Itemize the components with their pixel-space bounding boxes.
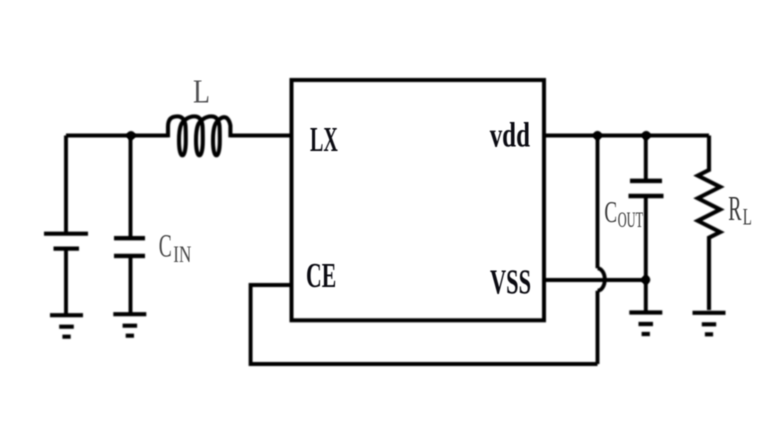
svg-text:L: L	[193, 74, 210, 111]
svg-text:C: C	[159, 229, 172, 265]
svg-text:LX: LX	[310, 120, 338, 159]
svg-text:VSS: VSS	[490, 263, 531, 302]
svg-text:OUT: OUT	[618, 207, 644, 232]
svg-text:R: R	[728, 189, 742, 228]
svg-text:C: C	[604, 194, 617, 229]
svg-text:L: L	[743, 205, 752, 230]
svg-text:vdd: vdd	[490, 115, 531, 154]
svg-text:IN: IN	[173, 242, 191, 267]
svg-text:CE: CE	[306, 256, 336, 295]
